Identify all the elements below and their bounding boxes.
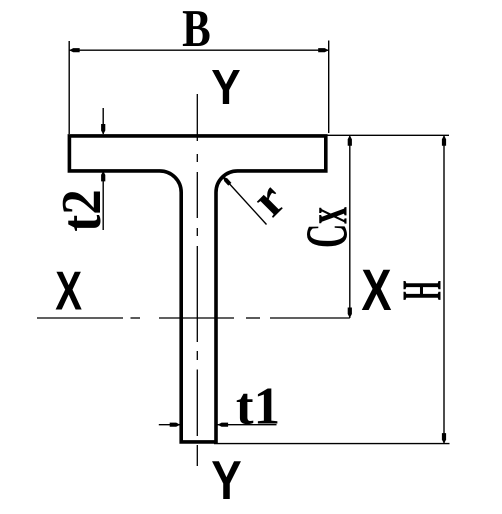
svg-text:H: H [391,281,453,301]
svg-text:X: X [361,259,391,324]
svg-text:B: B [182,0,211,58]
svg-text:X: X [55,260,82,322]
svg-text:Y: Y [211,60,240,115]
svg-text:Y: Y [211,449,241,511]
svg-text:Cx: Cx [295,207,360,248]
svg-text:t2: t2 [50,189,113,231]
svg-text:t1: t1 [236,378,280,436]
